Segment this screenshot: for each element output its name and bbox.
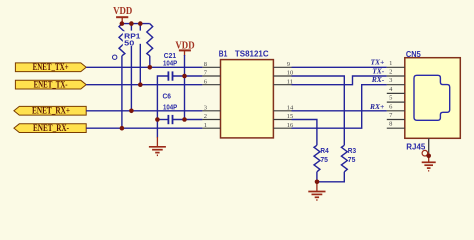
pin B1.1: [202, 122, 220, 129]
svg-text:R3: R3: [348, 148, 356, 155]
pin B1.9: [273, 61, 291, 68]
pin CN5.3: [387, 77, 405, 85]
junction CN5 shield ground: [426, 154, 431, 159]
ground (below CN5 shield): [422, 153, 436, 171]
svg-text:ENET_RX-: ENET_RX-: [33, 124, 69, 134]
svg-text:TX+: TX+: [370, 58, 384, 67]
resistor RP1 element 1 (x=121.9, to ENET_RX-): [119, 24, 125, 129]
wire ENET_RX+ row to B1 pin 3: [86, 110, 202, 112]
net label RX-: [371, 75, 385, 84]
pin B1.2: [202, 113, 220, 120]
junction RP1 rail / VDD: [120, 21, 125, 26]
wire C6 right plate to B1 pin 2: [173, 119, 203, 121]
pin B1.8: [202, 61, 220, 68]
ground (below R4/R3): [308, 182, 325, 200]
svg-text:2: 2: [389, 69, 392, 76]
svg-text:3: 3: [204, 105, 207, 112]
pin CN5.4: [387, 86, 405, 94]
wire ENET_TX+ row to B1 pin 8: [86, 66, 202, 68]
pin B1.11: [273, 78, 293, 85]
wire RX+ (B1 pin 14 to CN5 pin 6): [292, 110, 387, 112]
svg-text:VDD: VDD: [113, 6, 132, 17]
pin CN5.7: [387, 112, 405, 120]
label C21 value 104P: [163, 61, 177, 68]
wire TX+ (B1 pin 9 to CN5 pin 1): [292, 66, 387, 68]
label B1 designator: [219, 48, 228, 58]
svg-text:RX-: RX-: [371, 75, 385, 84]
svg-text:B1: B1: [219, 48, 228, 58]
svg-text:3: 3: [389, 77, 392, 84]
wire RP1 top rail: [122, 23, 150, 25]
connector CN5 body: [405, 58, 461, 139]
junction RP1 r1 / ENET_RX-: [120, 126, 125, 131]
junction RP1 r4 / ENET_TX+: [148, 65, 153, 70]
wire B1 pin 10 to R3 (TX center tap): [292, 76, 345, 145]
label RP1 designator: [123, 31, 142, 40]
pin CN5.6: [387, 103, 405, 111]
capacitor C21: [168, 71, 172, 80]
junction RP1 r3 / ENET_TX-: [138, 82, 143, 87]
label R4 designator: [320, 148, 328, 155]
resistor RP1 element 2 stub (x=131.4, to ENET_RX+): [130, 24, 132, 111]
power symbol VDD (top left, above RP1): [113, 6, 132, 24]
pin CN5 shield: [428, 138, 430, 152]
wire ENET_TX- row to B1 pin 6: [86, 84, 202, 86]
svg-text:RJ45: RJ45: [406, 141, 425, 151]
port ENET_TX-: [15, 80, 86, 90]
junction ground vertical / C6 left: [155, 117, 160, 122]
svg-text:2: 2: [204, 113, 207, 120]
label CN5 type RJ45: [406, 141, 425, 151]
svg-text:8: 8: [204, 61, 207, 68]
wire C21 right plate to B1 pin 7: [173, 75, 203, 77]
svg-text:ENET_TX-: ENET_TX-: [34, 81, 68, 91]
label R3 value 75: [348, 157, 356, 164]
svg-text:5: 5: [389, 95, 392, 102]
svg-text:1: 1: [389, 60, 392, 67]
port ENET_RX-: [14, 124, 86, 134]
label R3 designator: [348, 148, 356, 155]
transformer B1 TS8121C body: [221, 60, 274, 138]
pin B1.3: [202, 105, 220, 112]
svg-text:ENET_TX+: ENET_TX+: [33, 63, 69, 73]
svg-text:75: 75: [320, 157, 328, 164]
svg-text:104P: 104P: [163, 61, 177, 68]
pin CN5.8: [387, 121, 405, 129]
wire C6 left plate stub: [157, 119, 168, 121]
label C21 designator: [164, 53, 176, 60]
resistor RP1 element 4 (x=149.8, to ENET_TX+): [147, 24, 153, 68]
RJ45 jack symbol: [414, 75, 450, 120]
label RP1 value 50: [123, 38, 135, 47]
svg-text:75: 75: [348, 157, 356, 164]
svg-text:1: 1: [204, 122, 207, 129]
junction VDD vertical / pin 2 row: [182, 117, 187, 122]
svg-text:R4: R4: [320, 148, 328, 155]
label C6 designator: [163, 94, 172, 101]
label B1 type TS8121C: [235, 49, 269, 59]
wire VDD vertical to center taps (pins 7 and 2): [184, 55, 186, 120]
ground (below C6): [149, 137, 166, 155]
label R4 value 75: [320, 157, 328, 164]
svg-text:ENET_RX+: ENET_RX+: [32, 107, 70, 117]
junction R4/R3 ground node: [315, 180, 320, 185]
resistor R3: [317, 145, 347, 182]
pin B1.16: [273, 122, 294, 129]
wire RX- (B1 pin 16 up to CN5 pin 3): [292, 85, 387, 129]
junction RP1 rail r2: [129, 21, 134, 26]
svg-text:50: 50: [124, 38, 134, 47]
net label RX+: [369, 102, 384, 111]
wire ENET_RX- row to B1 pin 1: [86, 127, 202, 129]
svg-text:9: 9: [287, 61, 290, 68]
junction RP1 r2 / ENET_RX+: [129, 109, 134, 114]
resistor R4: [314, 145, 320, 182]
svg-text:C21: C21: [164, 53, 176, 60]
svg-text:8: 8: [389, 121, 392, 128]
net label TX+: [370, 58, 384, 67]
wire TX- (B1 pin 11 up to CN5 pin 2): [292, 76, 387, 85]
no-ERC marker circle at shield: [422, 150, 428, 156]
svg-text:TX-: TX-: [372, 66, 385, 75]
capacitor C6: [168, 115, 172, 124]
port ENET_RX+: [14, 106, 86, 116]
label CN5 designator: [406, 49, 421, 59]
pin CN5.1: [387, 60, 405, 68]
label C6 value 104P: [163, 105, 177, 112]
pin CN5.5: [387, 95, 405, 103]
pin CN5.2: [387, 69, 405, 77]
svg-text:RX+: RX+: [369, 102, 384, 111]
power symbol VDD (above C21/B1): [175, 40, 194, 56]
pin B1.7: [202, 70, 220, 77]
no-ERC marker circle: [113, 55, 117, 59]
resistor RP1 element 3 stub (x=140.3, to ENET_TX-): [139, 24, 141, 85]
net label TX-: [372, 66, 385, 75]
pin B1.14: [273, 105, 294, 112]
svg-text:TS8121C: TS8121C: [235, 49, 269, 59]
port ENET_TX+: [15, 63, 86, 73]
pin B1.10: [273, 70, 293, 77]
pin B1.6: [202, 78, 220, 85]
svg-text:C6: C6: [163, 94, 172, 101]
svg-text:CN5: CN5: [406, 49, 421, 59]
wire C21 left plate to ground vertical: [157, 76, 168, 138]
junction RP1 rail r3: [138, 21, 143, 26]
pin B1.15: [273, 113, 293, 120]
wire B1 pin 15 to R4 (RX center tap): [292, 120, 317, 146]
svg-text:104P: 104P: [163, 105, 177, 112]
junction VDD vertical / pin 7 row: [182, 74, 187, 79]
